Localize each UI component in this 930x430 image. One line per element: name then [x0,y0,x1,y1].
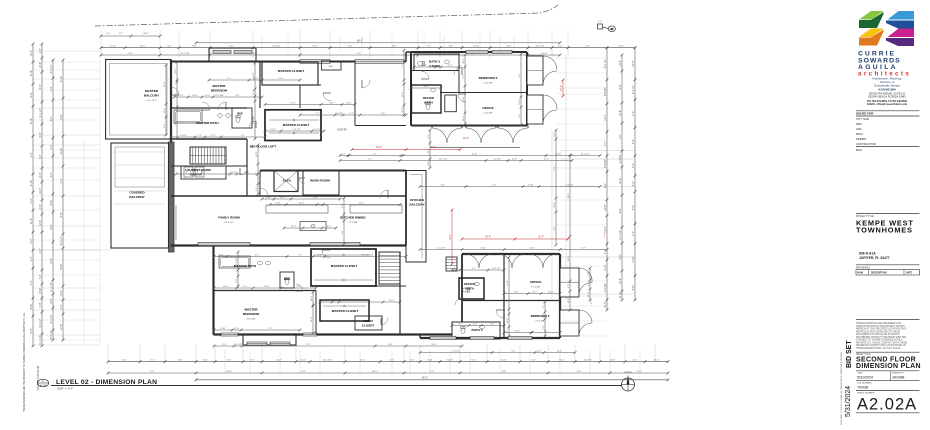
svg-text:MASTER BATH: MASTER BATH [196,121,219,125]
svg-text:15'-8": 15'-8" [619,110,622,116]
svg-text:2'-7": 2'-7" [39,248,42,253]
svg-text:5'-4 1/2": 5'-4 1/2" [452,351,460,353]
svg-text:3'-2": 3'-2" [428,134,430,138]
svg-text:2'-7": 2'-7" [604,141,607,146]
svg-text:20'-0": 20'-0" [430,147,436,149]
svg-text:MASTER CLOSET: MASTER CLOSET [278,69,305,73]
svg-text:7'-2": 7'-2" [427,46,432,48]
svg-text:12'-0": 12'-0" [39,220,42,226]
svg-text:MASTER CLOSET: MASTER CLOSET [283,123,310,127]
svg-text:6'-10": 6'-10" [548,292,554,294]
svg-text:2'-7": 2'-7" [310,226,314,228]
svg-text:12'-0": 12'-0" [544,159,550,161]
svg-text:5'-0": 5'-0" [39,84,42,89]
svg-text:2'-0": 2'-0" [236,279,238,283]
svg-text:ARCHITECTS. VISUAL CONTACT WIT: ARCHITECTS. VISUAL CONTACT WITH THESE [856,341,907,344]
svg-text:17'-0": 17'-0" [513,292,519,294]
svg-text:LEVEL 02 - DIMENSION PLAN: LEVEL 02 - DIMENSION PLAN [56,379,157,386]
svg-text:5/31/2024: 5/31/2024 [845,386,852,417]
svg-text:12'-0": 12'-0" [218,255,224,257]
svg-text:BATH: BATH [424,101,433,105]
svg-text:8'-0": 8'-0" [329,103,333,105]
svg-text:10'-0": 10'-0" [389,300,395,302]
svg-text:8'-0": 8'-0" [39,172,42,177]
svg-text:3'-0 5/8": 3'-0 5/8" [583,360,591,362]
svg-text:W/C: W/C [237,112,244,116]
svg-text:11'-1 1/2": 11'-1 1/2" [581,154,590,156]
svg-text:3'-2": 3'-2" [327,226,331,228]
svg-text:2'-7": 2'-7" [50,144,53,149]
svg-text:7'-2": 7'-2" [30,152,33,157]
svg-text:8'-0": 8'-0" [558,46,563,48]
svg-text:2'-7": 2'-7" [241,135,245,137]
svg-text:17'-0": 17'-0" [110,46,116,48]
svg-text:BATH 3: BATH 3 [472,328,483,332]
svg-text:6'-10": 6'-10" [472,154,478,156]
svg-text:8'-0": 8'-0" [178,360,183,362]
svg-text:CONSENT OF CURRIE SOWARDS AGUI: CONSENT OF CURRIE SOWARDS AGUILA [856,339,903,342]
svg-text:12'-0": 12'-0" [559,360,565,362]
svg-text:DATE:: DATE: [857,372,864,375]
svg-text:12'-0": 12'-0" [473,46,479,48]
svg-text:6'-10": 6'-10" [275,203,281,205]
svg-text:6'-10": 6'-10" [60,148,63,154]
svg-text:LINEN: LINEN [363,319,373,323]
svg-text:BALCONY: BALCONY [129,195,145,199]
svg-text:13'-4": 13'-4" [604,115,607,121]
svg-text:10'-0": 10'-0" [632,61,635,67]
svg-text:13'-4": 13'-4" [30,50,33,56]
svg-text:4'-0": 4'-0" [598,21,602,23]
svg-text:9'-6": 9'-6" [619,84,622,89]
svg-text:2'-7": 2'-7" [315,113,319,115]
svg-text:9'-6": 9'-6" [632,285,635,290]
svg-text:A2.02A: A2.02A [40,384,47,387]
svg-text:5'-0": 5'-0" [30,328,33,333]
svg-text:2'-7": 2'-7" [150,360,155,362]
svg-text:3'-0 5/8": 3'-0 5/8" [493,159,501,161]
svg-text:21'-4 1/2": 21'-4 1/2" [224,222,233,224]
svg-text:6'-10": 6'-10" [512,159,518,161]
svg-text:DRC: DRC [856,122,862,126]
svg-text:86'-0": 86'-0" [422,378,428,380]
svg-text:2'-0": 2'-0" [243,286,247,288]
svg-text:10'-0": 10'-0" [619,60,622,66]
svg-text:2'-7": 2'-7" [507,329,509,333]
svg-text:BEDROOM: BEDROOM [211,89,228,93]
svg-text:17'-0": 17'-0" [253,90,255,96]
svg-text:9'-6": 9'-6" [30,92,33,97]
svg-text:21'-0": 21'-0" [291,226,297,228]
svg-text:15'-8": 15'-8" [30,304,33,310]
svg-text:7'-2": 7'-2" [227,360,232,362]
svg-text:2'-7": 2'-7" [532,360,537,362]
svg-text:8'-0": 8'-0" [388,344,392,346]
svg-text:5'-4 1/2": 5'-4 1/2" [314,129,322,131]
svg-text:4'-0": 4'-0" [591,300,593,305]
svg-text:BEDROOM 3: BEDROOM 3 [531,314,550,318]
svg-text:2'-7": 2'-7" [544,331,548,333]
svg-text:6'-10": 6'-10" [515,331,521,333]
svg-text:3'-2": 3'-2" [150,371,155,373]
svg-text:3'-2": 3'-2" [511,351,515,353]
svg-text:DRAWINGS CONSTITUTES ACCEPTANC: DRAWINGS CONSTITUTES ACCEPTANCE OF [856,344,907,347]
svg-text:17'-0": 17'-0" [312,46,318,48]
svg-text:7'-2": 7'-2" [632,111,635,116]
svg-text:8'-0": 8'-0" [192,46,197,48]
svg-text:12'-0": 12'-0" [39,62,42,68]
svg-text:3'-2": 3'-2" [301,371,306,373]
svg-text:6'-10": 6'-10" [30,70,33,76]
svg-text:JOB NUMBER:: JOB NUMBER: [857,383,872,385]
svg-text:4'-0": 4'-0" [39,302,42,307]
svg-text:KITCHEN: KITCHEN [410,198,425,202]
svg-text:3'-2": 3'-2" [454,268,458,270]
svg-text:6'-10": 6'-10" [528,185,534,187]
svg-text:JUPITER, FL 33477: JUPITER, FL 33477 [859,256,890,260]
svg-text:OFFICE: OFFICE [482,106,493,110]
svg-text:MID FLOOR LOFT: MID FLOOR LOFT [250,145,276,149]
svg-text:21'-0": 21'-0" [299,203,305,205]
svg-text:CLOSET: CLOSET [362,324,375,328]
svg-text:21'-0": 21'-0" [205,95,211,97]
svg-text:20'-0": 20'-0" [485,237,491,239]
svg-text:6'-10": 6'-10" [220,328,226,330]
svg-text:17'-1 5/8": 17'-1 5/8" [348,222,357,224]
svg-text:15'-8": 15'-8" [313,197,319,199]
svg-text:7'-2": 7'-2" [632,163,635,168]
svg-text:13'-4": 13'-4" [541,53,547,55]
svg-text:2'-0": 2'-0" [342,204,344,208]
svg-text:5'-0": 5'-0" [637,371,642,373]
svg-text:5'-0": 5'-0" [222,344,226,346]
svg-text:16'-0": 16'-0" [463,138,469,140]
svg-text:24'-0": 24'-0" [143,33,149,35]
svg-text:3'-2": 3'-2" [30,238,33,243]
svg-text:3'-0 5/8": 3'-0 5/8" [335,113,343,115]
svg-text:2'-7": 2'-7" [373,154,377,156]
svg-text:COVERED: COVERED [129,191,145,195]
svg-text:11'-1 1/2": 11'-1 1/2" [492,268,501,270]
svg-text:THESE DRAWINGS ARE THE PROPERT: THESE DRAWINGS ARE THE PROPERTY OF CURRI… [23,312,26,412]
svg-text:4'-0": 4'-0" [458,324,462,326]
svg-text:15'-8": 15'-8" [164,82,166,88]
svg-text:4'-0": 4'-0" [50,86,53,91]
svg-text:12'-0": 12'-0" [140,46,146,48]
svg-text:2'-7": 2'-7" [423,65,427,67]
svg-text:5'-4 1/2": 5'-4 1/2" [50,314,53,323]
svg-text:A2.02A: A2.02A [857,396,917,414]
svg-text:4'-0": 4'-0" [577,371,582,373]
svg-text:OFFICE: OFFICE [464,282,475,286]
svg-text:8'-0": 8'-0" [60,290,63,295]
svg-text:10'-0": 10'-0" [311,296,313,302]
svg-text:4'-0": 4'-0" [39,204,42,209]
svg-text:4'-0": 4'-0" [519,114,521,118]
svg-text:10'-0": 10'-0" [463,116,465,122]
svg-text:2'-0": 2'-0" [296,286,300,288]
svg-text:12'-0": 12'-0" [588,292,590,298]
svg-text:DESCRIPTION: DESCRIPTION [871,273,887,275]
svg-text:DIMENSION PLAN: DIMENSION PLAN [856,363,921,370]
svg-text:11'-1 1/2": 11'-1 1/2" [437,248,446,250]
svg-text:5'-4 1/2": 5'-4 1/2" [293,129,301,131]
svg-text:11'-1 1/2": 11'-1 1/2" [439,159,448,161]
svg-text:13'-4": 13'-4" [610,360,616,362]
svg-text:4'-0": 4'-0" [568,284,570,288]
svg-text:2'-0": 2'-0" [342,230,344,234]
svg-text:10'-0": 10'-0" [532,292,538,294]
svg-text:13'-4": 13'-4" [50,258,53,264]
svg-text:BATH 3: BATH 3 [429,60,440,64]
svg-text:5'-0": 5'-0" [255,255,259,257]
svg-text:17'-0": 17'-0" [178,95,184,97]
svg-text:5'-4 1/2": 5'-4 1/2" [230,172,238,174]
svg-text:2'-0": 2'-0" [227,78,231,80]
svg-text:3'-2": 3'-2" [50,116,53,121]
svg-text:8'-0": 8'-0" [229,46,234,48]
svg-text:BEDROOM 3: BEDROOM 3 [479,76,498,80]
svg-text:11'-1 1/2": 11'-1 1/2" [39,108,42,118]
svg-text:12'-0": 12'-0" [280,197,286,199]
svg-text:10'-0": 10'-0" [568,298,570,304]
svg-text:7'-2": 7'-2" [298,255,302,257]
svg-text:10'-0": 10'-0" [568,193,570,199]
svg-text:13'-4": 13'-4" [480,248,486,250]
svg-text:12'-0": 12'-0" [619,178,622,184]
svg-text:8'-0": 8'-0" [175,120,177,124]
svg-text:10'-0": 10'-0" [654,360,660,362]
svg-text:4'-0": 4'-0" [519,73,521,77]
svg-text:4'-0": 4'-0" [164,124,166,128]
svg-text:10'-0": 10'-0" [402,107,404,113]
svg-text:CITY SUB: CITY SUB [856,117,869,121]
svg-text:3'-0 5/8": 3'-0 5/8" [234,344,242,346]
svg-text:OFFICE: OFFICE [423,96,434,100]
svg-text:13'-4": 13'-4" [529,248,535,250]
svg-text:10'-0": 10'-0" [223,286,229,288]
svg-text:4'-0": 4'-0" [554,226,556,230]
svg-text:11'-1 1/2": 11'-1 1/2" [180,53,189,55]
svg-text:4'-0": 4'-0" [245,172,249,174]
svg-text:REPRODUCTION OR REUSE OF THESE: REPRODUCTION OR REUSE OF THESE [856,331,900,333]
svg-text:THESE DRAWINGS ARE PREPARED FO: THESE DRAWINGS ARE PREPARED FOR [856,322,902,325]
svg-text:17'-0": 17'-0" [210,135,216,137]
svg-text:3'-2": 3'-2" [463,74,465,78]
svg-text:13'-4": 13'-4" [423,86,429,88]
svg-text:7'-2": 7'-2" [619,134,622,139]
svg-text:10'-0": 10'-0" [50,200,53,206]
svg-text:12'-0": 12'-0" [60,324,63,330]
svg-text:7'-6 x 11'-0": 7'-6 x 11'-0" [146,100,157,102]
svg-text:5'-0": 5'-0" [203,360,208,362]
svg-text:14'-0": 14'-0" [450,234,452,240]
svg-text:HEREON AT THE SPECIFIED LOCATI: HEREON AT THE SPECIFIED LOCATION ONLY. [856,328,907,331]
svg-text:DATE: DATE [906,272,913,275]
svg-text:5'-0": 5'-0" [588,272,590,276]
svg-text:5'-0": 5'-0" [253,53,258,55]
svg-text:10'-0": 10'-0" [604,302,607,308]
svg-text:9'-6": 9'-6" [60,114,63,119]
svg-text:3'-2": 3'-2" [633,360,638,362]
svg-text:8'-0": 8'-0" [428,161,430,165]
svg-text:5/31/2024 10:38:45 AM: 5/31/2024 10:38:45 AM [37,366,40,390]
svg-text:6'-10": 6'-10" [30,118,33,124]
svg-text:4'-0": 4'-0" [30,280,33,285]
svg-text:4'-0": 4'-0" [167,46,172,48]
svg-text:15'-8": 15'-8" [604,205,607,211]
svg-text:A/C: A/C [329,65,333,68]
svg-text:AA26001584: AA26001584 [878,87,896,91]
svg-text:9'-6": 9'-6" [619,254,622,259]
svg-text:11'-1 1/2": 11'-1 1/2" [50,282,53,292]
svg-text:LAUNDRY ROOM: LAUNDRY ROOM [185,168,211,172]
svg-text:3'-0 5/8": 3'-0 5/8" [604,283,607,292]
svg-text:17'-0": 17'-0" [471,360,477,362]
svg-text:3'-0 5/8": 3'-0 5/8" [619,154,622,163]
svg-text:8'-0": 8'-0" [50,224,53,229]
svg-text:86'-0": 86'-0" [357,41,363,43]
svg-text:3'-2": 3'-2" [50,172,53,177]
svg-text:3 BATH: 3 BATH [429,64,441,68]
svg-text:10'-0": 10'-0" [276,360,282,362]
svg-text:21'-0": 21'-0" [164,108,166,114]
svg-text:9'-6": 9'-6" [507,46,512,48]
svg-text:7'-2": 7'-2" [632,231,635,236]
svg-text:15'-8": 15'-8" [39,288,42,294]
svg-text:7'-2": 7'-2" [39,274,42,279]
svg-text:21'-0": 21'-0" [30,218,33,224]
svg-text:3/16" = 1'-0": 3/16" = 1'-0" [57,386,73,390]
svg-text:MASTER: MASTER [145,89,159,93]
svg-text:21'-0": 21'-0" [557,351,563,353]
svg-text:9'-6": 9'-6" [381,113,385,115]
svg-text:5'-4 1/2": 5'-4 1/2" [60,236,63,245]
svg-text:5'-4 1/2": 5'-4 1/2" [566,185,574,187]
svg-text:5'-4 1/2": 5'-4 1/2" [632,85,635,94]
svg-text:BATH: BATH [466,287,475,291]
svg-text:DRAWN BY:: DRAWN BY: [892,372,905,375]
svg-text:10'-0": 10'-0" [619,278,622,284]
svg-text:10'-0": 10'-0" [431,344,437,346]
svg-text:7'-2": 7'-2" [39,154,42,159]
svg-text:5'-4 1/2": 5'-4 1/2" [179,135,187,137]
svg-text:10'-0": 10'-0" [192,95,198,97]
svg-text:6'-10": 6'-10" [507,280,509,286]
svg-text:21'-0": 21'-0" [428,148,430,154]
svg-text:3'-2": 3'-2" [537,351,541,353]
svg-text:7'-2": 7'-2" [357,53,362,55]
svg-text:13'-4": 13'-4" [270,129,276,131]
svg-text:2'-7": 2'-7" [472,268,476,270]
svg-text:15'-8": 15'-8" [554,202,556,208]
svg-text:17'-1 5/8": 17'-1 5/8" [483,83,492,85]
svg-text:3'-2": 3'-2" [441,185,445,187]
svg-text:17'-1 5/8": 17'-1 5/8" [246,319,255,321]
svg-text:21'-0": 21'-0" [561,85,563,91]
svg-text:MASTER BATH: MASTER BATH [234,264,257,268]
svg-text:W/C: W/C [284,277,291,281]
svg-text:7'-2": 7'-2" [543,305,545,309]
svg-text:70/038: 70/038 [857,385,868,389]
svg-text:9'-6": 9'-6" [490,324,494,326]
svg-text:15'-8": 15'-8" [60,264,63,270]
svg-text:2'-7": 2'-7" [342,154,346,156]
svg-text:10'-0": 10'-0" [264,286,270,288]
svg-text:10'-0": 10'-0" [316,255,322,257]
svg-text:PERMIT: PERMIT [856,137,867,141]
svg-text:21'-0": 21'-0" [538,237,544,239]
svg-text:17'-0": 17'-0" [632,257,635,263]
svg-text:THESE RESTRICTIONS. DO NOT SCA: THESE RESTRICTIONS. DO NOT SCALE. [856,347,901,350]
svg-text:10'-0": 10'-0" [568,256,570,262]
svg-text:5'-4 1/2": 5'-4 1/2" [272,46,280,48]
svg-text:15'-8": 15'-8" [556,154,562,156]
svg-text:PROHIBITED WITHOUT THE PRIOR W: PROHIBITED WITHOUT THE PRIOR WRITTEN [856,337,907,339]
svg-text:4'-0": 4'-0" [604,233,606,238]
svg-text:MISC: MISC [856,132,863,136]
svg-text:MASTER: MASTER [212,84,226,88]
svg-text:9'-6": 9'-6" [619,208,622,213]
svg-text:8'-0": 8'-0" [235,95,239,97]
svg-text:17'-1 5/8": 17'-1 5/8" [214,95,223,97]
svg-text:7'-2": 7'-2" [30,256,33,261]
svg-text:E-MAIL: office@csa-architects.: E-MAIL: office@csa-architects.com [867,103,907,106]
svg-text:9'-6": 9'-6" [581,248,585,250]
svg-text:5'-4 1/2": 5'-4 1/2" [39,318,42,327]
svg-text:13'-4": 13'-4" [278,78,284,80]
svg-text:PLOT DATE: 5/31/2024 10:38 AM: PLOT DATE: 5/31/2024 10:38 AM FILE: KEMP… [840,351,843,425]
svg-text:NUM: NUM [858,273,863,275]
svg-text:4'-0": 4'-0" [106,33,110,35]
svg-text:CONSTRUCTION OF THE PROJECT SH: CONSTRUCTION OF THE PROJECT SHOWN [856,326,905,328]
svg-text:62.84 SF: 62.84 SF [337,130,347,132]
svg-text:15'-8": 15'-8" [256,152,258,158]
svg-text:15'-8": 15'-8" [507,318,509,324]
svg-text:3'-2": 3'-2" [122,360,127,362]
svg-text:3'-0 5/8": 3'-0 5/8" [362,255,370,257]
svg-text:MASTER CLOSET: MASTER CLOSET [332,309,359,313]
svg-text:13'-4": 13'-4" [39,188,42,194]
svg-text:10'-0": 10'-0" [226,371,232,373]
svg-text:16'-0": 16'-0" [376,147,382,149]
svg-text:BALCONY: BALCONY [409,203,425,207]
svg-text:5'-4 1/2": 5'-4 1/2" [50,64,53,73]
svg-text:5'-4 1/2": 5'-4 1/2" [604,59,607,68]
svg-text:9'-6": 9'-6" [256,187,258,191]
svg-text:17'-1 5/8": 17'-1 5/8" [531,287,540,289]
svg-text:2'-0": 2'-0" [632,139,635,144]
svg-text:21'-0": 21'-0" [604,265,607,271]
svg-text:12'-0": 12'-0" [618,46,624,48]
svg-text:10'-0": 10'-0" [372,371,378,373]
svg-text:2'-7": 2'-7" [368,159,372,161]
svg-text:BALCONY: BALCONY [144,94,160,98]
svg-text:JA/SAB: JA/SAB [892,376,905,380]
svg-text:KITCHEN DINING: KITCHEN DINING [340,216,366,220]
svg-text:17'-1 5/8": 17'-1 5/8" [535,321,544,323]
svg-text:5'-0": 5'-0" [128,53,133,55]
svg-text:2'-0": 2'-0" [359,300,363,302]
svg-text:21'-0": 21'-0" [311,317,313,323]
svg-text:6'-10": 6'-10" [265,197,271,199]
svg-text:BOA: BOA [856,148,862,152]
svg-text:13'-4": 13'-4" [402,92,404,98]
svg-text:11'-1 1/2": 11'-1 1/2" [619,230,622,240]
svg-text:2'-0": 2'-0" [30,198,33,203]
svg-text:6'-10": 6'-10" [463,97,465,103]
svg-text:5'-0": 5'-0" [604,183,607,188]
